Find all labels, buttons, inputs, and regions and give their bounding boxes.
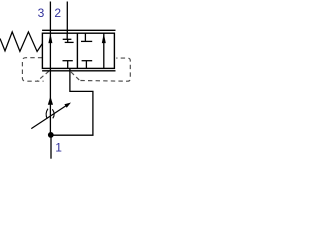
blocked port bottom, left square: [67, 61, 69, 69]
flow direction arrowhead on main line: [48, 96, 53, 104]
variable adjustment diagonal arrow: [31, 106, 66, 129]
blocked port bottom, right square: [85, 61, 87, 69]
blocked port top, right square: [84, 33, 86, 41]
envelope divider: [76, 33, 78, 68]
variable orifice arcs: [46, 109, 48, 119]
main flow line (port 3 through valve down to junction): [49, 33, 51, 134]
blocked port top, left square (double seat): [66, 33, 68, 39]
port 2 line: [66, 2, 68, 34]
dashed housing boundary right (rounded): [80, 58, 130, 81]
flow arrow left square: [48, 33, 52, 43]
svg-text:1: 1: [55, 141, 62, 155]
dashed pilot diagonal right: [71, 72, 79, 80]
valve envelope: [42, 33, 114, 68]
svg-text:3: 3: [38, 6, 45, 20]
flow arrow right square: [103, 33, 105, 68]
dashed drain diagonal left: [38, 71, 49, 81]
spring: [0, 32, 42, 52]
port 3 line: [49, 2, 51, 34]
wire from envelope bottom down: [51, 68, 93, 135]
port 1 line: [50, 135, 52, 159]
proportional parallel line top: [42, 29, 115, 31]
proportional parallel line bottom: [42, 70, 115, 72]
junction node: [48, 132, 54, 138]
dashed housing boundary left (rounded): [22, 58, 43, 81]
svg-text:2: 2: [54, 6, 61, 20]
